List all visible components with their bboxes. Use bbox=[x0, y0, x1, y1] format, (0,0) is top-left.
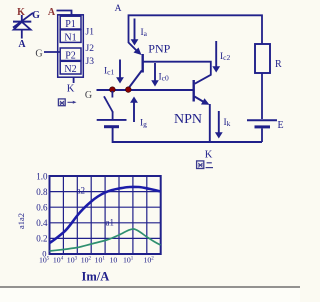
transistor Q1 PNP emitter (arrow into base) bbox=[129, 43, 138, 52]
svg-text:0.6: 0.6 bbox=[36, 203, 48, 213]
wire A to stack top bbox=[57, 11, 72, 15]
svg-text:0.4: 0.4 bbox=[36, 218, 48, 228]
svg-text:N1: N1 bbox=[64, 32, 76, 43]
transistor Q1 PNP base bar bbox=[141, 54, 143, 73]
svg-text:N2: N2 bbox=[64, 64, 76, 75]
arrow Ic2 bbox=[215, 41, 217, 67]
wire K lead of stack bbox=[73, 77, 75, 83]
transistor Q2 NPN emitter (arrow out) bbox=[195, 97, 204, 102]
wire G to P2 bbox=[44, 51, 60, 53]
arrow Ik bbox=[218, 111, 220, 133]
arrow Ia bbox=[134, 19, 136, 41]
battery E short plate bbox=[255, 125, 271, 128]
switch S lower stub bbox=[112, 112, 114, 120]
svg-text:a2: a2 bbox=[77, 186, 86, 196]
svg-text:G: G bbox=[85, 90, 92, 101]
battery Eg long plate bbox=[97, 119, 127, 121]
switch S stub bbox=[111, 91, 113, 98]
transistor Q1 PNP collector wire to gate node bbox=[128, 71, 142, 89]
svg-text:P1: P1 bbox=[65, 19, 76, 30]
separator line bbox=[0, 286, 300, 288]
wire R to battery E bbox=[261, 73, 263, 119]
node junction dot 2 bbox=[126, 87, 132, 93]
svg-text:Im/A: Im/A bbox=[82, 270, 110, 284]
svg-text:0.8: 0.8 bbox=[36, 187, 48, 197]
wire PNP base to NPN collector bbox=[144, 62, 211, 84]
arrow Ic0 bbox=[154, 63, 156, 81]
battery E long plate bbox=[247, 119, 277, 121]
svg-text:0.2: 0.2 bbox=[36, 234, 47, 244]
chart gridlines vertical bbox=[63, 176, 146, 254]
gate wire diagonal bbox=[13, 13, 33, 28]
wire A lead bbox=[21, 30, 23, 39]
layer N1 bbox=[60, 30, 81, 43]
wire NPN emitter to bottom rail bbox=[209, 104, 211, 142]
stack outer box bbox=[58, 15, 84, 77]
switch S blade bbox=[104, 96, 113, 112]
layer N2 bbox=[60, 61, 81, 74]
svg-text:1.0: 1.0 bbox=[36, 172, 48, 182]
svg-text:K: K bbox=[67, 84, 75, 95]
svg-text:G: G bbox=[35, 49, 42, 60]
svg-text:A: A bbox=[18, 39, 26, 50]
svg-text:Ik: Ik bbox=[224, 118, 231, 128]
svg-text:NPN: NPN bbox=[174, 112, 202, 127]
cathode bar bbox=[13, 21, 31, 23]
svg-text:R: R bbox=[275, 59, 282, 70]
arrow Ic1 bbox=[119, 60, 121, 79]
svg-text:Ig: Ig bbox=[140, 119, 147, 129]
svg-text:PNP: PNP bbox=[148, 42, 170, 56]
svg-text:P2: P2 bbox=[65, 50, 76, 61]
layer P2 bbox=[60, 48, 81, 61]
node junction dot 1 bbox=[110, 87, 116, 93]
svg-text:J1: J1 bbox=[86, 28, 95, 38]
svg-text:J3: J3 bbox=[86, 57, 95, 67]
label figure2 caption (vector 图二) bbox=[197, 161, 213, 169]
svg-text:A: A bbox=[48, 7, 56, 18]
svg-text:K: K bbox=[205, 150, 213, 161]
arrow Ig bbox=[133, 102, 135, 122]
svg-text:Ic0: Ic0 bbox=[159, 73, 170, 83]
svg-text:a1a2: a1a2 bbox=[16, 213, 26, 229]
thyristor triangle bbox=[14, 22, 31, 30]
label figure1 caption (vector 图一 with arrow) bbox=[58, 99, 76, 106]
wire gate rail bbox=[97, 89, 194, 91]
wire bottom rail bbox=[113, 128, 262, 142]
svg-text:A: A bbox=[115, 4, 122, 14]
axis labels x ticks bbox=[39, 256, 154, 265]
layer P1 bbox=[60, 16, 81, 29]
curve a1 bbox=[50, 229, 161, 251]
wire E to bottom rail bbox=[261, 129, 263, 143]
svg-text:10: 10 bbox=[110, 256, 118, 265]
svg-text:J2: J2 bbox=[86, 44, 95, 54]
curve a2 bbox=[50, 187, 161, 243]
chart border bbox=[50, 176, 161, 254]
svg-text:Ia: Ia bbox=[141, 28, 148, 38]
svg-text:a1: a1 bbox=[106, 218, 115, 228]
resistor R body bbox=[255, 44, 270, 73]
battery Eg short plate bbox=[104, 125, 119, 128]
svg-text:Ic2: Ic2 bbox=[220, 52, 231, 62]
wire K lead bbox=[21, 15, 23, 22]
svg-text:G: G bbox=[32, 10, 40, 21]
svg-text:E: E bbox=[278, 120, 284, 131]
wire top rail bbox=[129, 15, 263, 44]
bottom strip below separator bbox=[0, 288, 300, 302]
chart gridlines horizontal bbox=[50, 192, 161, 239]
transistor Q2 NPN base bar bbox=[192, 80, 194, 102]
svg-text:Ic1: Ic1 bbox=[104, 67, 115, 77]
